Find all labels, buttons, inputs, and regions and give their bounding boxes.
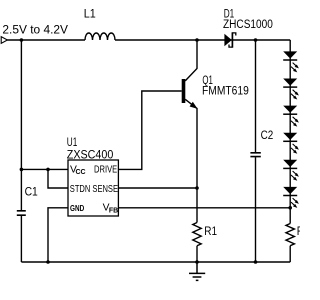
node dot VFB junction: [288, 206, 292, 210]
wire Q1 emitter down to R1: [185, 99, 197, 222]
transistor Q1 base bar: [182, 79, 186, 103]
node dot input junction: [20, 38, 24, 42]
wire bottom rail: [21, 261, 290, 263]
wire top rail right of L1: [115, 39, 290, 41]
LED D4: [283, 106, 299, 127]
inductor L1: [85, 33, 115, 40]
LED D6: [283, 160, 299, 181]
LED D2: [283, 51, 299, 72]
svg-text:L1: L1: [84, 9, 96, 21]
diode D1 triangle: [224, 34, 231, 47]
input terminal triangle: [1, 37, 7, 44]
resistor R2: [286, 224, 294, 246]
resistor R1: [193, 223, 201, 246]
svg-text:DRIVE: DRIVE: [94, 165, 117, 176]
node dot R1 rail junction: [195, 260, 199, 264]
diode D1 schottky cathode bar: [231, 32, 233, 47]
wire LED column: [289, 40, 291, 224]
node dot GND rail junction: [46, 260, 50, 264]
wire STDN jog: [48, 169, 68, 188]
svg-text:ZHCS1000: ZHCS1000: [223, 19, 273, 31]
transistor Q1 emitter arrowhead: [190, 102, 198, 109]
node dot C2 top junction: [254, 38, 258, 42]
wire DRIVE to Q1 base: [118, 91, 181, 169]
LED D3: [283, 79, 299, 100]
wire input branch vertical: [20, 40, 22, 211]
wire C2 branch top: [255, 40, 257, 152]
LED D7: [283, 187, 299, 208]
wire C2 bottom to rail: [255, 157, 257, 262]
node dot STDN jog junction: [46, 168, 50, 172]
svg-text:CC: CC: [76, 169, 86, 176]
ground: [189, 262, 205, 280]
svg-text:FB: FB: [109, 207, 118, 214]
svg-text:U1: U1: [67, 137, 78, 149]
wire VFB line: [118, 207, 290, 209]
svg-text:STDN SENSE: STDN SENSE: [70, 184, 118, 195]
node dot C2 rail junction: [254, 260, 258, 264]
capacitor C1: [17, 211, 26, 215]
wire SENSE pin: [118, 187, 197, 189]
wire C1 bottom to rail: [20, 215, 22, 262]
op-amp U1 box: [68, 160, 118, 216]
wire GND pin to rail: [48, 208, 68, 262]
LED D5: [283, 133, 299, 154]
svg-text:R2: R2: [297, 226, 300, 238]
svg-text:FMMT619: FMMT619: [202, 86, 249, 98]
node dot Vcc junction: [20, 168, 24, 172]
capacitor C2: [250, 153, 260, 157]
wire R1 bottom: [196, 246, 198, 262]
wire Q1 collector: [185, 40, 197, 81]
svg-text:GND: GND: [70, 203, 84, 213]
wire top rail left of L1: [7, 39, 85, 41]
wire R2 bottom: [289, 246, 291, 262]
svg-text:2.5V to 4.2V: 2.5V to 4.2V: [2, 23, 68, 37]
wire Vcc pin: [21, 168, 68, 170]
svg-text:C1: C1: [25, 187, 38, 199]
node dot SENSE junction: [195, 186, 199, 190]
node dot collector junction: [195, 38, 199, 42]
svg-text:R1: R1: [204, 226, 217, 238]
svg-text:C2: C2: [261, 130, 274, 142]
svg-text:ZXSC400: ZXSC400: [67, 149, 114, 161]
